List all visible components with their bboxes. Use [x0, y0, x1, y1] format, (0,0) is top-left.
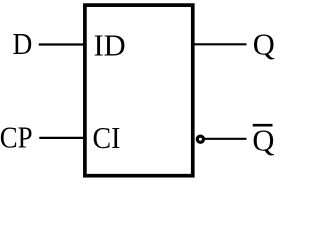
svg-text:ID: ID: [94, 28, 126, 62]
svg-text:D: D: [13, 28, 33, 62]
svg-text:Q: Q: [252, 123, 274, 157]
svg-text:Q: Q: [253, 28, 275, 62]
svg-text:CP: CP: [0, 121, 33, 155]
svg-text:CI: CI: [93, 122, 121, 155]
